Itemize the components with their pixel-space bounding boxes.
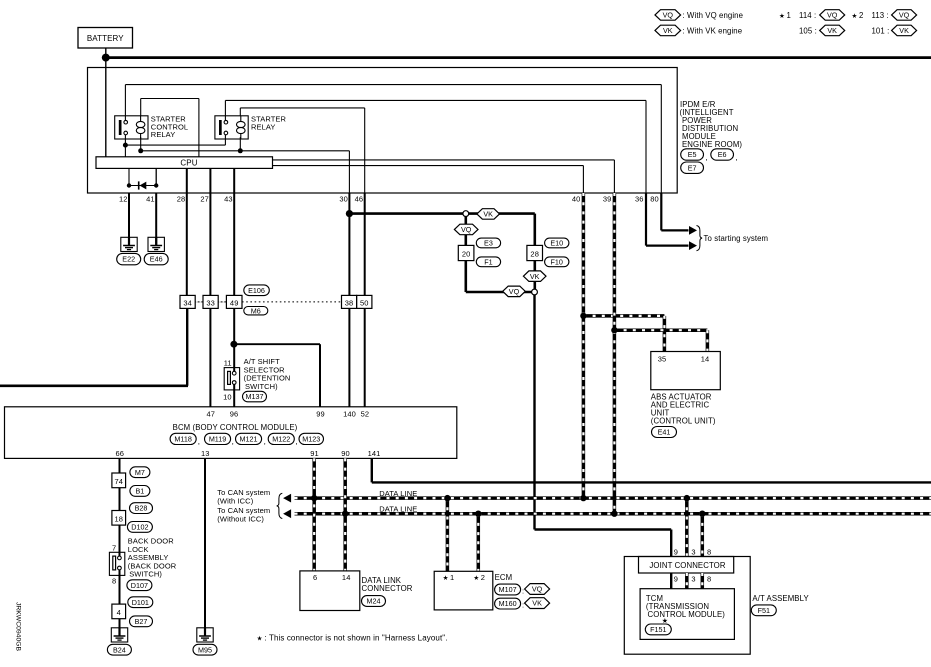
wire pin 28 to box 34	[186, 193, 188, 295]
CPU box	[96, 157, 273, 169]
wire pin 27 to BCM 47	[209, 193, 211, 407]
svg-text:★: ★	[852, 12, 858, 20]
junction 90 data line 2	[342, 511, 348, 517]
junction pin 30 starter link	[346, 210, 353, 217]
wire relay contact commons to CPU	[125, 135, 225, 157]
VQ hexagon ECM	[525, 584, 550, 595]
connector B1	[130, 486, 150, 497]
ECM pin star1	[443, 573, 455, 582]
svg-text:VK: VK	[827, 26, 837, 35]
svg-text::: :	[522, 586, 524, 595]
connector E41	[652, 427, 677, 438]
svg-text:To starting system: To starting system	[704, 234, 769, 243]
svg-text:★: ★	[473, 574, 479, 582]
svg-text:113 :: 113 :	[872, 11, 889, 20]
connector D107	[127, 580, 152, 591]
svg-text:RELAY: RELAY	[251, 122, 276, 131]
wire VK branch to box 28	[469, 214, 535, 246]
wire box 34 to left edge feeder	[0, 308, 188, 385]
wire pin 46 down to BCM 52	[364, 193, 366, 407]
svg-text:ECM: ECM	[495, 573, 513, 582]
svg-text:33: 33	[206, 298, 215, 307]
wire branch to BCM 99	[234, 344, 320, 407]
wire box 20 to lower circle	[466, 261, 532, 292]
link dashes 34-33	[195, 301, 203, 303]
junction 39 data line 2	[611, 511, 617, 517]
connector E3	[476, 238, 500, 248]
wire pin 43 to box 49 and switch	[233, 193, 235, 373]
svg-text:E3: E3	[484, 239, 493, 248]
svg-text:74: 74	[115, 477, 124, 486]
svg-text:VQ: VQ	[532, 585, 543, 594]
svg-text:VK: VK	[483, 210, 493, 219]
CAN wire pin 40 dashed	[582, 193, 586, 498]
CAN wire to ECM star1 dashed	[446, 498, 450, 571]
CAN data line 2 without ICC	[283, 509, 931, 518]
wire JC3 to TCM dashed	[685, 573, 689, 589]
svg-text:43: 43	[224, 195, 233, 204]
svg-text:B27: B27	[135, 617, 148, 626]
ECM box	[434, 571, 493, 610]
svg-text:JRKWC0940GB: JRKWC0940GB	[15, 602, 22, 652]
svg-text:M7: M7	[135, 468, 145, 477]
svg-text:9: 9	[674, 574, 678, 583]
svg-text:CONTROL MODULE): CONTROL MODULE)	[648, 610, 726, 619]
svg-text:F10: F10	[551, 257, 563, 266]
junction JC8 data line 2	[699, 511, 705, 517]
svg-text:M107: M107	[499, 585, 517, 594]
joint connector box	[639, 557, 734, 574]
connector E6	[711, 149, 734, 160]
svg-text:CPU: CPU	[180, 159, 197, 168]
junction control relay coil	[138, 148, 143, 153]
svg-text:: This connector is not shown: : This connector is not shown in "Harnes…	[265, 634, 448, 643]
svg-text:E106: E106	[248, 286, 265, 295]
svg-text:(Without ICC): (Without ICC)	[217, 515, 264, 524]
svg-text:B24: B24	[113, 645, 126, 654]
connector junction circle F1/F10	[532, 289, 538, 295]
svg-text:VK: VK	[530, 272, 540, 281]
comma	[198, 437, 200, 446]
to CAN system labels	[217, 488, 270, 524]
wire VQ branch to box 20	[464, 217, 467, 246]
svg-text:F1: F1	[484, 257, 492, 266]
svg-text:M24: M24	[367, 597, 381, 606]
svg-text:46: 46	[355, 195, 364, 204]
connector M160	[495, 598, 521, 609]
pin box 33	[203, 295, 218, 308]
CAN wire to ECM star2 dashed	[477, 514, 481, 572]
legend VK symbol : With VK engine	[655, 25, 742, 36]
svg-text:M121: M121	[240, 435, 258, 444]
junction diode right	[154, 183, 158, 187]
svg-text:47: 47	[207, 409, 216, 418]
svg-text:40: 40	[572, 195, 581, 204]
BCM bottom pin numbers	[116, 449, 381, 458]
svg-text:RELAY: RELAY	[151, 130, 176, 139]
legend star1 pin 114 VQ	[779, 10, 845, 21]
svg-text:M122: M122	[272, 435, 290, 444]
connector M119	[205, 433, 231, 444]
CAN branch to ABS 35 dashed	[583, 316, 664, 352]
svg-text:28: 28	[177, 195, 186, 204]
battery bus junction	[102, 54, 110, 62]
ground B24	[111, 628, 127, 642]
wire battery bus to right edge	[106, 56, 931, 59]
CAN wire BCM 90 to DLC 14 dashed	[343, 458, 347, 571]
svg-text:101 :: 101 :	[872, 27, 890, 36]
ECM label	[495, 573, 513, 582]
connector M6	[244, 306, 268, 315]
svg-text:E6: E6	[718, 150, 727, 159]
svg-text:D101: D101	[132, 598, 149, 607]
svg-text:ENGINE ROOM): ENGINE ROOM)	[682, 140, 742, 149]
connector M107	[495, 584, 521, 595]
svg-text:,: ,	[198, 437, 200, 446]
wire CPU to pin 41	[155, 168, 157, 185]
A/T assembly label	[752, 594, 809, 603]
svg-text:(With ICC): (With ICC)	[217, 496, 253, 505]
svg-text:: With VQ engine: : With VQ engine	[683, 11, 744, 20]
svg-text:35: 35	[658, 355, 667, 364]
svg-text:14: 14	[342, 573, 351, 582]
svg-text:7: 7	[112, 544, 116, 553]
connector E5	[681, 149, 704, 160]
connector E10	[545, 238, 569, 248]
starter relay	[215, 116, 248, 139]
svg-text:141: 141	[368, 449, 381, 458]
footnote star	[257, 634, 448, 643]
wire relay coil commons to pin 30	[141, 137, 350, 193]
svg-text:8: 8	[707, 548, 711, 557]
svg-text:,: ,	[736, 153, 738, 162]
svg-text:(CONTROL UNIT): (CONTROL UNIT)	[651, 417, 716, 426]
svg-text:SWITCH): SWITCH)	[129, 570, 162, 579]
wire battery feed down to CPU	[105, 48, 107, 157]
IPDM E/R enclosure box	[88, 68, 678, 194]
data link connector box	[300, 571, 360, 611]
svg-text:2: 2	[859, 11, 863, 20]
wire starter control relay contact top to pin 80 rail	[125, 85, 661, 193]
A/T shift selector detention switch	[224, 368, 239, 390]
svg-text:M137: M137	[246, 392, 264, 401]
wire BCM 66 chain	[119, 458, 121, 636]
connector M95	[193, 644, 217, 655]
svg-text:9: 9	[674, 548, 678, 557]
wire lower circle to joint connector pin 9	[535, 295, 672, 557]
wire pin 36 to starting system	[646, 193, 697, 250]
svg-text:49: 49	[230, 298, 239, 307]
svg-text:E46: E46	[150, 255, 163, 264]
svg-text:M95: M95	[198, 645, 212, 654]
connector M121	[236, 433, 262, 444]
data line 2 label	[379, 505, 417, 514]
svg-text:,: ,	[706, 153, 708, 162]
data line 1 label	[379, 489, 417, 498]
svg-text:E7: E7	[688, 163, 697, 172]
wire JC8 to TCM dashed	[701, 573, 705, 589]
to starting system label	[697, 226, 769, 251]
colon	[522, 586, 524, 595]
svg-text:M119: M119	[209, 435, 226, 444]
svg-text:★: ★	[257, 635, 263, 643]
junction contact common	[123, 143, 128, 148]
comma	[736, 153, 738, 162]
connector M118	[170, 433, 196, 444]
svg-text:52: 52	[361, 409, 370, 418]
svg-text:140: 140	[343, 409, 356, 418]
svg-text:11: 11	[224, 358, 232, 367]
connector E22	[117, 253, 141, 264]
wire BCM 13 to ground	[204, 458, 206, 636]
svg-text:20: 20	[462, 249, 471, 258]
wire pin 30 down to BCM 140	[348, 193, 350, 407]
A/T shift selector label	[244, 357, 291, 391]
pin box 50	[357, 295, 372, 308]
svg-text:41: 41	[146, 195, 155, 204]
svg-text:VK: VK	[663, 26, 673, 35]
svg-text:E10: E10	[550, 239, 563, 248]
DLC pin numbers	[313, 573, 350, 582]
svg-text:VK: VK	[532, 599, 542, 608]
connector M123	[299, 433, 324, 444]
svg-text:,: ,	[264, 437, 266, 446]
connector E7	[681, 162, 704, 173]
ABS pin numbers	[658, 355, 710, 364]
svg-text:SWITCH): SWITCH)	[245, 382, 278, 391]
CAN wire to joint connector 8 dashed	[701, 514, 705, 557]
back door switch pin 7	[112, 544, 116, 553]
svg-text:50: 50	[360, 298, 369, 307]
VK hexagon lower	[523, 271, 546, 282]
svg-text:1: 1	[787, 11, 791, 20]
svg-text:: With VK engine: : With VK engine	[683, 27, 743, 36]
svg-text:M123: M123	[302, 435, 320, 444]
svg-text:105 :: 105 :	[799, 27, 817, 36]
svg-text:34: 34	[183, 298, 192, 307]
link dashes 33-49	[218, 301, 226, 303]
pin box 38	[342, 295, 357, 308]
TCM box	[640, 589, 734, 640]
IPDM E/R label	[680, 100, 743, 149]
wire box 28 to lower circle	[533, 261, 536, 290]
connector M7	[130, 467, 150, 478]
svg-text:A/T ASSEMBLY: A/T ASSEMBLY	[752, 594, 809, 603]
VQ hexagon left	[454, 224, 478, 235]
legend star2 pin 113 VQ	[852, 10, 917, 21]
pin box 74	[112, 473, 126, 488]
pin box 34	[180, 295, 195, 308]
svg-text:80: 80	[650, 195, 659, 204]
connector M137	[243, 391, 267, 402]
junction ECM star1 data line 1	[444, 495, 450, 501]
svg-text:,: ,	[295, 437, 297, 446]
pin box 28	[527, 245, 543, 260]
connector junction circle E3/E10	[463, 211, 469, 217]
wire CPU to pin 12	[128, 168, 130, 185]
connector F1	[476, 257, 500, 267]
legend star2 pin 101 VK	[872, 25, 917, 36]
svg-text:BATTERY: BATTERY	[87, 34, 124, 43]
svg-text:1: 1	[450, 573, 454, 582]
starter control relay	[115, 116, 148, 139]
wire pin 80 to starting system	[661, 193, 697, 235]
svg-text:13: 13	[201, 449, 210, 458]
starter relay label	[251, 115, 286, 132]
connector F10	[545, 257, 569, 267]
svg-text:E22: E22	[122, 255, 135, 264]
wire starter control relay coil drive from CPU	[141, 99, 199, 157]
connector M24	[362, 596, 386, 607]
junction ECM star2 data line 2	[475, 511, 481, 517]
svg-text:F151: F151	[650, 625, 666, 634]
BCM box	[5, 407, 457, 459]
drawing number JRKWC0940GB	[15, 602, 22, 652]
svg-text:M6: M6	[251, 306, 261, 315]
wire CPU pins 28 27 43	[187, 168, 234, 193]
CAN wire BCM 91 to DLC 6 dashed	[312, 458, 316, 571]
ABS actuator label	[651, 393, 716, 426]
connector F151	[645, 624, 671, 635]
connector B24	[107, 644, 131, 655]
ECM pin star2	[473, 573, 485, 582]
IPDM pin numbers	[119, 195, 659, 204]
junction starter relay coil	[238, 148, 243, 153]
svg-text:D102: D102	[131, 523, 148, 532]
connector D102	[127, 522, 152, 533]
CAN data line 1 with ICC	[283, 494, 931, 503]
TCM label	[646, 594, 725, 619]
svg-text:M118: M118	[174, 435, 191, 444]
comma	[706, 153, 708, 162]
svg-text:6: 6	[313, 573, 317, 582]
connector E46	[144, 253, 168, 264]
wire CPU to pin 40	[273, 166, 584, 193]
star F151	[662, 617, 668, 625]
svg-text:3: 3	[691, 574, 695, 583]
svg-text:E41: E41	[658, 428, 671, 437]
A/T shift selector pin 11	[224, 358, 232, 367]
connector B28	[130, 503, 153, 514]
svg-text:36: 36	[635, 195, 644, 204]
junction diode left	[127, 183, 131, 187]
svg-text:VQ: VQ	[827, 11, 838, 20]
svg-text:27: 27	[200, 195, 209, 204]
svg-text:90: 90	[341, 449, 350, 458]
colon	[522, 600, 524, 609]
back door lock switch	[109, 552, 124, 575]
junction CAN 40 branch	[580, 313, 586, 319]
battery	[78, 28, 133, 49]
svg-text:VQ: VQ	[663, 11, 674, 20]
A/T assembly outer box	[624, 557, 750, 655]
svg-text:D107: D107	[131, 581, 148, 590]
svg-text:114 :: 114 :	[799, 11, 816, 20]
wire pin 41 to ground	[155, 193, 157, 246]
wire pin 12 to ground	[128, 193, 130, 246]
CAN wire pin 39 dashed	[613, 193, 617, 514]
svg-text:38: 38	[345, 298, 354, 307]
svg-text:96: 96	[230, 409, 239, 418]
svg-text:66: 66	[116, 449, 125, 458]
starter control relay label	[151, 115, 188, 140]
svg-text:3: 3	[691, 548, 695, 557]
CAN branch to ABS 14 dashed	[614, 330, 707, 351]
connector E106	[244, 285, 269, 296]
svg-text:2: 2	[481, 573, 485, 582]
svg-text:B28: B28	[135, 504, 148, 513]
comma	[295, 437, 297, 446]
VQ hexagon lower	[503, 286, 526, 297]
data link connector label	[362, 576, 413, 593]
wire starter relay coil to pin 46	[240, 108, 364, 193]
BCM top pin numbers	[207, 409, 370, 418]
TCM pin numbers	[674, 574, 712, 583]
junction 40 data line 1	[580, 495, 586, 501]
svg-text:12: 12	[119, 195, 128, 204]
connector F51	[751, 605, 776, 616]
svg-text::: :	[522, 600, 524, 609]
back door lock label	[128, 537, 177, 579]
svg-text:4: 4	[117, 608, 121, 617]
BCM label	[173, 423, 298, 432]
ground E46	[148, 237, 164, 251]
svg-text:★: ★	[443, 574, 449, 582]
svg-text:BCM (BODY CONTROL MODULE): BCM (BODY CONTROL MODULE)	[173, 423, 298, 432]
junction CAN 39 branch	[611, 327, 617, 333]
comma	[232, 437, 234, 446]
junction 91 data line 1	[311, 495, 317, 501]
VK hexagon ECM	[525, 598, 550, 609]
svg-text:8: 8	[112, 576, 116, 585]
svg-text:30: 30	[339, 195, 348, 204]
diode in IPDM	[129, 181, 156, 189]
svg-text:28: 28	[530, 249, 539, 258]
svg-text:99: 99	[316, 409, 325, 418]
ground M95	[197, 628, 213, 642]
connector B27	[130, 616, 153, 627]
svg-text:18: 18	[115, 514, 124, 523]
svg-text:VK: VK	[899, 26, 909, 35]
connector D101	[128, 597, 153, 608]
svg-text:91: 91	[310, 449, 319, 458]
svg-text:,: ,	[232, 437, 234, 446]
svg-text:E5: E5	[688, 150, 697, 159]
svg-text:39: 39	[603, 195, 612, 204]
pin box 4	[112, 604, 126, 619]
svg-text:F51: F51	[758, 606, 770, 615]
brace CAN	[277, 493, 283, 518]
svg-text:CONNECTOR: CONNECTOR	[362, 584, 413, 593]
svg-text:VQ: VQ	[899, 11, 910, 20]
joint connector pin numbers top	[674, 548, 712, 557]
svg-text:14: 14	[701, 355, 710, 364]
CAN wire to joint connector 3 dashed	[685, 498, 689, 556]
connector link E106/M6 dotted line	[242, 301, 342, 303]
pin box 20	[458, 245, 474, 260]
svg-text:VQ: VQ	[461, 225, 472, 234]
junction JC3 data line 1	[684, 495, 690, 501]
legend star1 pin 105 VK	[799, 25, 845, 36]
pin box 18	[112, 511, 126, 526]
back door switch pin 8	[112, 576, 116, 585]
ABS actuator box	[651, 352, 721, 390]
svg-text:JOINT CONNECTOR: JOINT CONNECTOR	[649, 561, 725, 570]
pin box 49	[226, 295, 242, 308]
VK hexagon top	[477, 209, 500, 220]
comma	[264, 437, 266, 446]
svg-text:VQ: VQ	[509, 287, 520, 296]
